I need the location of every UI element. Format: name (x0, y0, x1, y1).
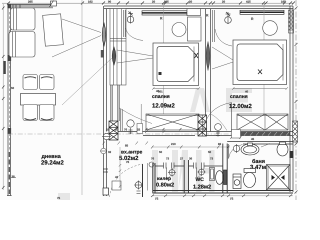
dining chair top-right (40, 75, 55, 90)
bedroom1 tiny dim (156, 90, 159, 92)
threshold ticks (230, 136, 242, 140)
left dim text 38 (12, 176, 15, 178)
wall marks hall left (103, 169, 108, 172)
storage label (157, 177, 170, 181)
bath label (252, 159, 264, 163)
left wall 38 mark line (11, 177, 16, 179)
bed 1 (153, 43, 199, 86)
wall under bedroom1 dim ticks (145, 128, 199, 131)
bottom tiny labels (155, 198, 158, 200)
storage door jamb ticks (164, 163, 175, 169)
dining chair top-left (23, 75, 38, 90)
storage/WC wall (184, 160, 188, 193)
leader lines lens2 to bed1 (117, 50, 153, 56)
storage door leaf (166, 168, 168, 179)
leader line table to radiator 1 (62, 19, 101, 33)
left wall window dashes lower (8, 152, 10, 194)
radiator lens 2 (112, 47, 116, 65)
storage area label (156, 183, 174, 187)
corridor dimension ticks (151, 146, 230, 149)
dining table (21, 94, 56, 106)
round table bedroom1 (172, 23, 186, 37)
bath lamp (233, 144, 239, 153)
horizontal axis line (dash-dot y=134) (8, 133, 293, 135)
WC door leaf (196, 168, 198, 178)
left wall window dashes (8, 12, 10, 150)
duct hatched block (198, 115, 207, 136)
living room area label (41, 160, 63, 164)
right wall column 2 (290, 151, 294, 158)
hall top dimension ticks (103, 142, 149, 145)
hall inner dim line (119, 147, 121, 188)
closet column bedroom1 (110, 9, 126, 85)
section axis right edge (dash-dot x=296) (295, 0, 297, 200)
WC door arc (197, 168, 204, 178)
left dim text 50 (11, 87, 14, 89)
left dimension ticks (2, 7, 5, 190)
structural column hall/bedroom1 (hatched) (109, 121, 118, 140)
boiler (277, 142, 288, 156)
hall right wall line (147, 163, 149, 191)
WC/bath wall (223, 144, 227, 194)
bedroom2 corridor door curve (211, 114, 227, 131)
living room label (42, 155, 61, 159)
wall under bedrooms (y=133) (118, 132, 293, 136)
bedroom2 room label (230, 95, 247, 98)
coffee table (43, 14, 64, 46)
shower (267, 165, 291, 191)
outlet label R bedroom2 (206, 14, 208, 16)
corridor dimension line (152, 146, 230, 148)
bottom dimension ticks (151, 195, 292, 198)
storage room top wall (155, 165, 184, 167)
hall tiny dim (126, 161, 129, 163)
dining chair bottom-right (40, 105, 55, 121)
axis line C (x=264) (263, 3, 265, 131)
radiator lens 1 (102, 23, 106, 46)
leader lines lens3 to bed2 (212, 47, 233, 60)
bed1 small mark (159, 72, 162, 75)
leader line dining to lens2 (62, 58, 112, 105)
sofa module 1 (11, 8, 36, 30)
bedroom1 area label (152, 103, 174, 107)
top wall living room (window band) (8, 5, 53, 8)
entrance door arc (dashed) (110, 164, 143, 197)
hall top dim texts (106, 129, 140, 131)
wall living/hall (x=104) (104, 6, 107, 196)
storage lamp (168, 169, 176, 177)
switch on hall wall (102, 133, 111, 139)
right axis ticks (295, 7, 298, 194)
dark wall segment right (241, 132, 291, 136)
left dimension block (3, 61, 5, 74)
outlet label R bedroom1 (160, 17, 162, 19)
bath sink leader (261, 144, 270, 148)
WC area label (193, 185, 211, 189)
hall inner dim ticks (119, 164, 121, 188)
wall lamp bedroom1 (127, 12, 134, 24)
bath door arc (229, 145, 243, 159)
bedroom2 area label (229, 104, 251, 108)
WC top wall (189, 165, 223, 167)
bath door leaf (228, 144, 230, 159)
wardrobe bedroom2 (237, 114, 288, 130)
bedroom2 door leaf (bottom) (231, 103, 233, 132)
wardrobe2 bottom dim text (251, 138, 254, 140)
bath top wall (227, 142, 293, 145)
second switch symbol hall wall (101, 148, 107, 154)
hall top dim text 85 (125, 145, 128, 147)
bedroom2 window band (240, 10, 284, 14)
watermark ghost letters (58, 88, 252, 200)
bedroom1 door open leaf line (140, 104, 142, 131)
doorbell symbol (134, 181, 143, 194)
bottom dimension line (152, 195, 293, 197)
axis line B (x=163.5) (163, 3, 165, 131)
bath toilet (244, 169, 256, 188)
bed2 bottom dim (232, 87, 288, 90)
bedroom2 door arc (bottom) (203, 103, 232, 132)
wall between bedrooms (206, 9, 211, 132)
round table bedroom2 (263, 21, 278, 36)
WC toilet (216, 170, 227, 185)
intercom box (112, 181, 121, 190)
bed 2 (233, 40, 287, 85)
bedroom1 desk (188, 17, 202, 41)
entrance door leaf (142, 164, 144, 197)
top wall bedrooms (104, 6, 293, 9)
bedroom1 door threshold (137, 124, 143, 134)
hall inner dim text (115, 176, 118, 178)
bedroom1 nightstand (187, 9, 201, 16)
outlet label R bedroom2 window (251, 18, 253, 20)
WC label (196, 178, 204, 182)
right wall duct block (hatched) (293, 121, 298, 142)
duct walls below closet (111, 85, 119, 121)
left wall (7, 5, 12, 196)
switch symbol bedroom1 door (127, 120, 134, 134)
dining chair bottom-left (23, 105, 38, 121)
bed2 pillow mark (258, 70, 262, 75)
bedroom1 door swing curve (120, 108, 153, 124)
radiator lens 3 (206, 42, 210, 70)
bottom wall (153, 191, 294, 194)
switch symbol bedroom2 door (215, 124, 222, 137)
WC sink (210, 168, 215, 181)
storage room left wall (153, 163, 155, 193)
WC lamp (198, 168, 206, 176)
corridor dimension texts (151, 143, 221, 159)
bed1 bottom dim (152, 87, 200, 90)
bath area label (250, 165, 269, 169)
hall label (121, 151, 142, 155)
storage door arc (167, 168, 173, 179)
wardrobe strip right top (289, 10, 294, 33)
bedroom1 window/radiator band (142, 11, 187, 15)
wardrobe1 bottom dim ticks (145, 130, 201, 133)
top dimension line (2, 2, 293, 4)
bed1 pillow mark (195, 53, 199, 58)
top dimension texts (28, 1, 285, 3)
wardrobe bedroom1 (146, 114, 199, 130)
bath sink (241, 143, 259, 155)
washing machine (233, 174, 241, 189)
axis line A (x=82) (81, 0, 83, 195)
hall area label (119, 156, 138, 160)
bedroom1 door leaf (top) (124, 10, 126, 37)
bedroom1 room label (152, 95, 169, 98)
corner box symbol top wall (50, 1, 57, 8)
leader line 2 to radiator 1 (52, 36, 101, 58)
bedroom2 door leaf (top) (213, 10, 215, 42)
left outer dimension line (2, 4, 4, 190)
wall lamp bedroom2 (225, 12, 232, 24)
bedroom1 door leaf (bottom) (121, 109, 123, 131)
top wall corner block (8, 4, 12, 8)
right wall (290, 6, 293, 192)
wall block below lens1 (101, 50, 104, 58)
panel box on hall wall (103, 188, 109, 195)
bedroom1 door arc (top) (126, 28, 143, 41)
bedroom2 door arc (top) (215, 29, 232, 46)
left wall blocks (8, 55, 12, 61)
top dimension ticks (7, 2, 295, 5)
WC door jamb ticks (194, 163, 205, 169)
bedroom2 door threshold (232, 130, 241, 139)
small symbol hall right (149, 162, 154, 167)
sofa module 2 (9, 32, 35, 58)
